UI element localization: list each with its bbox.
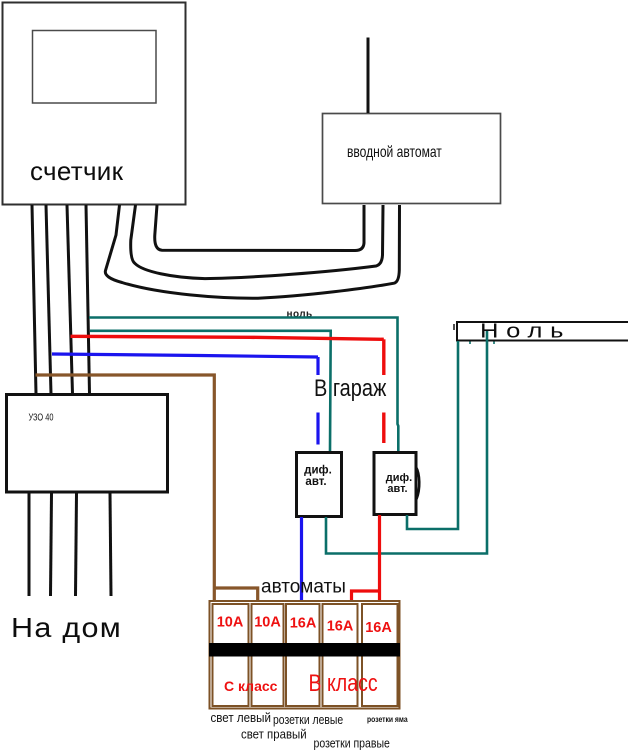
meter box (счетчик) — [3, 3, 186, 205]
wire: blue from диф.авт 1 to cell 3 — [300, 517, 303, 602]
wire: loop inner (meter to input breaker) — [155, 205, 364, 251]
wire: red dash segment 1 — [382, 339, 385, 375]
wire: loop middle (meter to input breaker) — [131, 205, 383, 279]
wire: meter lead 2 (black, to УЗО) — [46, 205, 51, 394]
breaker cell 5 — [362, 604, 398, 706]
wire: house lead 1 below УЗО — [28, 493, 31, 596]
wire: red from диф.авт 2 down — [378, 515, 381, 602]
wire: teal from диф.авт 1 to Ноль bar — [326, 331, 487, 554]
teal stub 2 below Ноль box — [493, 341, 495, 344]
breaker cell 1 — [213, 604, 249, 706]
svg-text:В гараж: В гараж — [314, 374, 386, 401]
svg-text:диф.: диф. — [304, 465, 332, 477]
wire: house lead 2 below УЗО — [51, 493, 52, 596]
svg-text:розетки яма: розетки яма — [367, 714, 408, 724]
black DIN rail band — [209, 643, 400, 657]
wire: brown phase (to breaker row) — [36, 375, 215, 602]
stray ink tick left of Ноль box — [453, 324, 455, 330]
svg-text:счетчик: счетчик — [30, 156, 124, 186]
svg-text:Ноль: Ноль — [480, 319, 571, 342]
wire: teal from диф.авт 2 to Ноль bar — [407, 341, 458, 529]
wire: blue dash segment 2 — [316, 413, 319, 445]
wire: house lead 3 below УЗО — [76, 493, 77, 596]
Ноль box (neutral bar) — [457, 322, 628, 341]
svg-text:розетки правые: розетки правые — [314, 735, 391, 750]
wire: red phase to гараж (horizontal) — [71, 336, 384, 339]
svg-text:вводной автомат: вводной автомат — [347, 143, 442, 161]
breaker cell 4 — [323, 604, 358, 706]
svg-text:В класс: В класс — [309, 669, 378, 697]
svg-text:авт.: авт. — [387, 483, 407, 495]
wire: supply drop above input breaker — [367, 38, 370, 114]
wire: meter lead 3 (black, to УЗО) — [67, 205, 73, 394]
svg-text:свет левый: свет левый — [211, 710, 272, 725]
диф.авт 2 box — [374, 453, 416, 515]
svg-text:10А: 10А — [254, 615, 281, 631]
svg-text:розетки левые: розетки левые — [273, 713, 344, 727]
breaker cell 3 — [286, 604, 320, 706]
svg-text:авт.: авт. — [305, 476, 326, 488]
svg-text:На дом: На дом — [11, 612, 122, 644]
wire: loop outer (meter to input breaker) — [105, 205, 399, 298]
svg-text:16А: 16А — [327, 619, 354, 635]
wire: red branch staple to cell 4 — [352, 591, 380, 602]
wire: brown branch staple to cell 2 — [214, 588, 257, 602]
input breaker box (вводной автомат) — [323, 114, 501, 204]
wire: blue dash segment 1 — [316, 357, 319, 375]
teal stub 1 below Ноль box — [469, 341, 471, 344]
wire: neutral bus teal 1 (to диф.авт 2) — [89, 318, 398, 453]
svg-text:10А: 10А — [217, 615, 244, 631]
wire: meter lead 1 (black, to УЗО) — [32, 205, 36, 394]
svg-text:16А: 16А — [365, 620, 392, 636]
svg-text:16А: 16А — [290, 616, 317, 632]
svg-text:свет правый: свет правый — [241, 727, 307, 742]
диф.авт 1 box — [297, 453, 342, 517]
wire: meter lead 4 (black, to УЗО) — [86, 205, 90, 394]
breaker cell 2 — [252, 604, 284, 706]
wire: blue phase to гараж (horizontal) — [52, 354, 318, 357]
svg-text:автоматы: автоматы — [261, 577, 346, 598]
svg-text:УЗО 40: УЗО 40 — [29, 411, 54, 422]
wire: red dash segment 2 — [382, 413, 385, 444]
wire: neutral bus teal 2 (to диф.авт 1) — [90, 331, 331, 451]
УЗО box — [7, 395, 168, 493]
svg-text:С класс: С класс — [224, 678, 278, 694]
диф.авт 2 right edge hand-drawn bulge — [416, 467, 419, 499]
wire: house lead 4 below УЗО — [110, 493, 111, 596]
breaker row outer box — [210, 601, 400, 709]
meter display window — [33, 31, 157, 104]
